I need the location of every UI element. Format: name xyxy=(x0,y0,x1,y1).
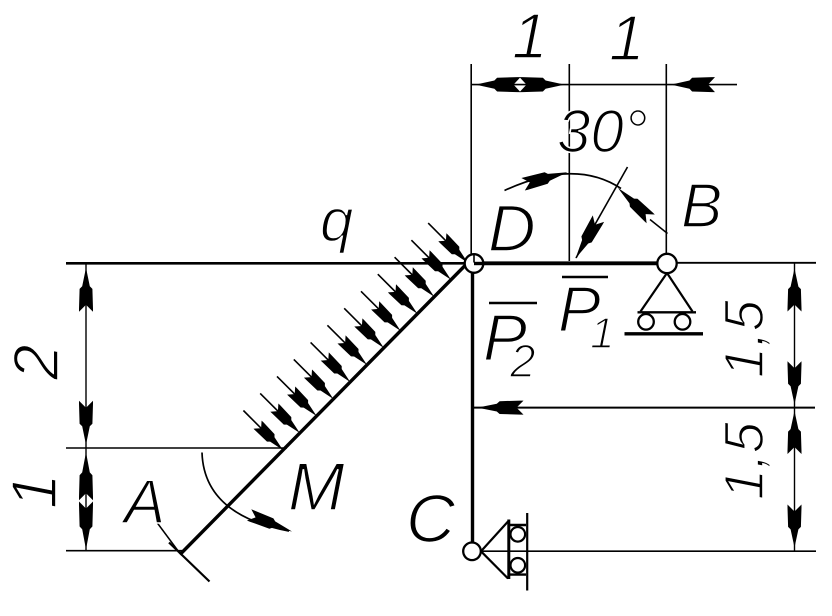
svg-text:1: 1 xyxy=(609,2,645,74)
svg-text:2: 2 xyxy=(0,344,72,381)
svg-text:M: M xyxy=(288,449,345,525)
svg-text:1: 1 xyxy=(590,309,614,358)
svg-text:30°: 30° xyxy=(557,98,648,165)
svg-text:q: q xyxy=(320,187,353,254)
svg-text:2: 2 xyxy=(509,335,536,387)
svg-text:D: D xyxy=(488,191,536,265)
svg-text:1: 1 xyxy=(512,0,548,72)
svg-text:B: B xyxy=(681,172,722,241)
svg-text:C: C xyxy=(406,481,456,557)
svg-text:1,5: 1,5 xyxy=(712,421,775,500)
svg-text:A: A xyxy=(120,468,165,537)
svg-text:1,5: 1,5 xyxy=(712,299,775,378)
svg-text:1: 1 xyxy=(0,473,70,509)
